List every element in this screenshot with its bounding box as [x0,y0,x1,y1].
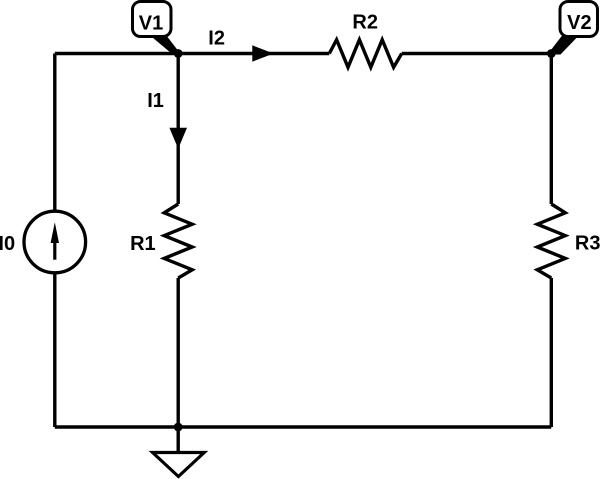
wire top-middle (node V1 to R2) [178,52,329,55]
svg-text:V2: V2 [567,12,591,34]
wire right rail upper (node V2 to R3) [550,54,553,205]
resistor R2 [329,40,401,68]
svg-text:R1: R1 [130,233,156,255]
node V1 junction dot [174,49,183,58]
svg-text:I1: I1 [147,90,164,112]
callout V2 [548,2,598,55]
svg-text:I2: I2 [208,28,225,50]
svg-text:R2: R2 [352,11,378,33]
wire top-left (left corner to node V1) [55,52,178,55]
current arrow I1 head [169,128,187,149]
resistor R1 [164,204,192,278]
svg-text:V1: V1 [139,12,163,34]
svg-text:I0: I0 [0,233,15,255]
svg-text:R3: R3 [575,233,600,255]
resistor R3 [537,204,565,278]
ground [153,427,205,477]
wire right rail lower (R3 to bottom corner) [550,278,553,427]
wire top-right (R2 to node V2) [402,52,552,55]
wire left rail upper (corner to current source) [53,54,56,212]
current source I0 [24,211,86,273]
node ground junction dot [174,423,183,432]
wire middle rail lower (R1 to bottom node) [176,278,179,427]
wire middle rail upper (node V1 to R1) [176,54,179,205]
node V2 junction dot [547,49,556,58]
current arrow I2 head [252,45,273,61]
callout V1 [133,2,182,55]
wire bottom (left corner to right corner) [55,425,552,428]
wire left rail lower (current source to bottom corner) [53,273,56,428]
